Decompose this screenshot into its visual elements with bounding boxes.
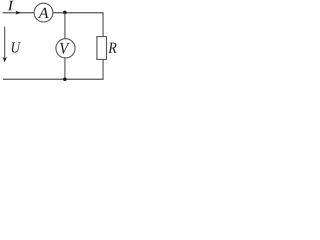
resistor R bbox=[97, 37, 107, 60]
wire top-left segment bbox=[3, 12, 35, 14]
label R bbox=[108, 43, 116, 53]
wire right vertical lower bbox=[102, 59, 104, 79]
voltage arrow U head bbox=[3, 57, 7, 62]
wire voltmeter branch lower bbox=[64, 58, 66, 79]
wire voltmeter branch upper bbox=[64, 13, 66, 39]
node junction top bbox=[63, 11, 67, 15]
wire top-right segment bbox=[53, 12, 104, 14]
label U bbox=[12, 42, 21, 52]
voltmeter V1 bbox=[56, 39, 75, 58]
current arrow head bbox=[15, 11, 20, 15]
node junction bottom bbox=[63, 77, 67, 81]
ammeter A1 bbox=[34, 3, 53, 22]
wire bottom bbox=[3, 78, 104, 80]
voltage arrow U shaft bbox=[4, 27, 6, 59]
wire right vertical upper bbox=[102, 13, 104, 37]
label I bbox=[8, 1, 14, 11]
